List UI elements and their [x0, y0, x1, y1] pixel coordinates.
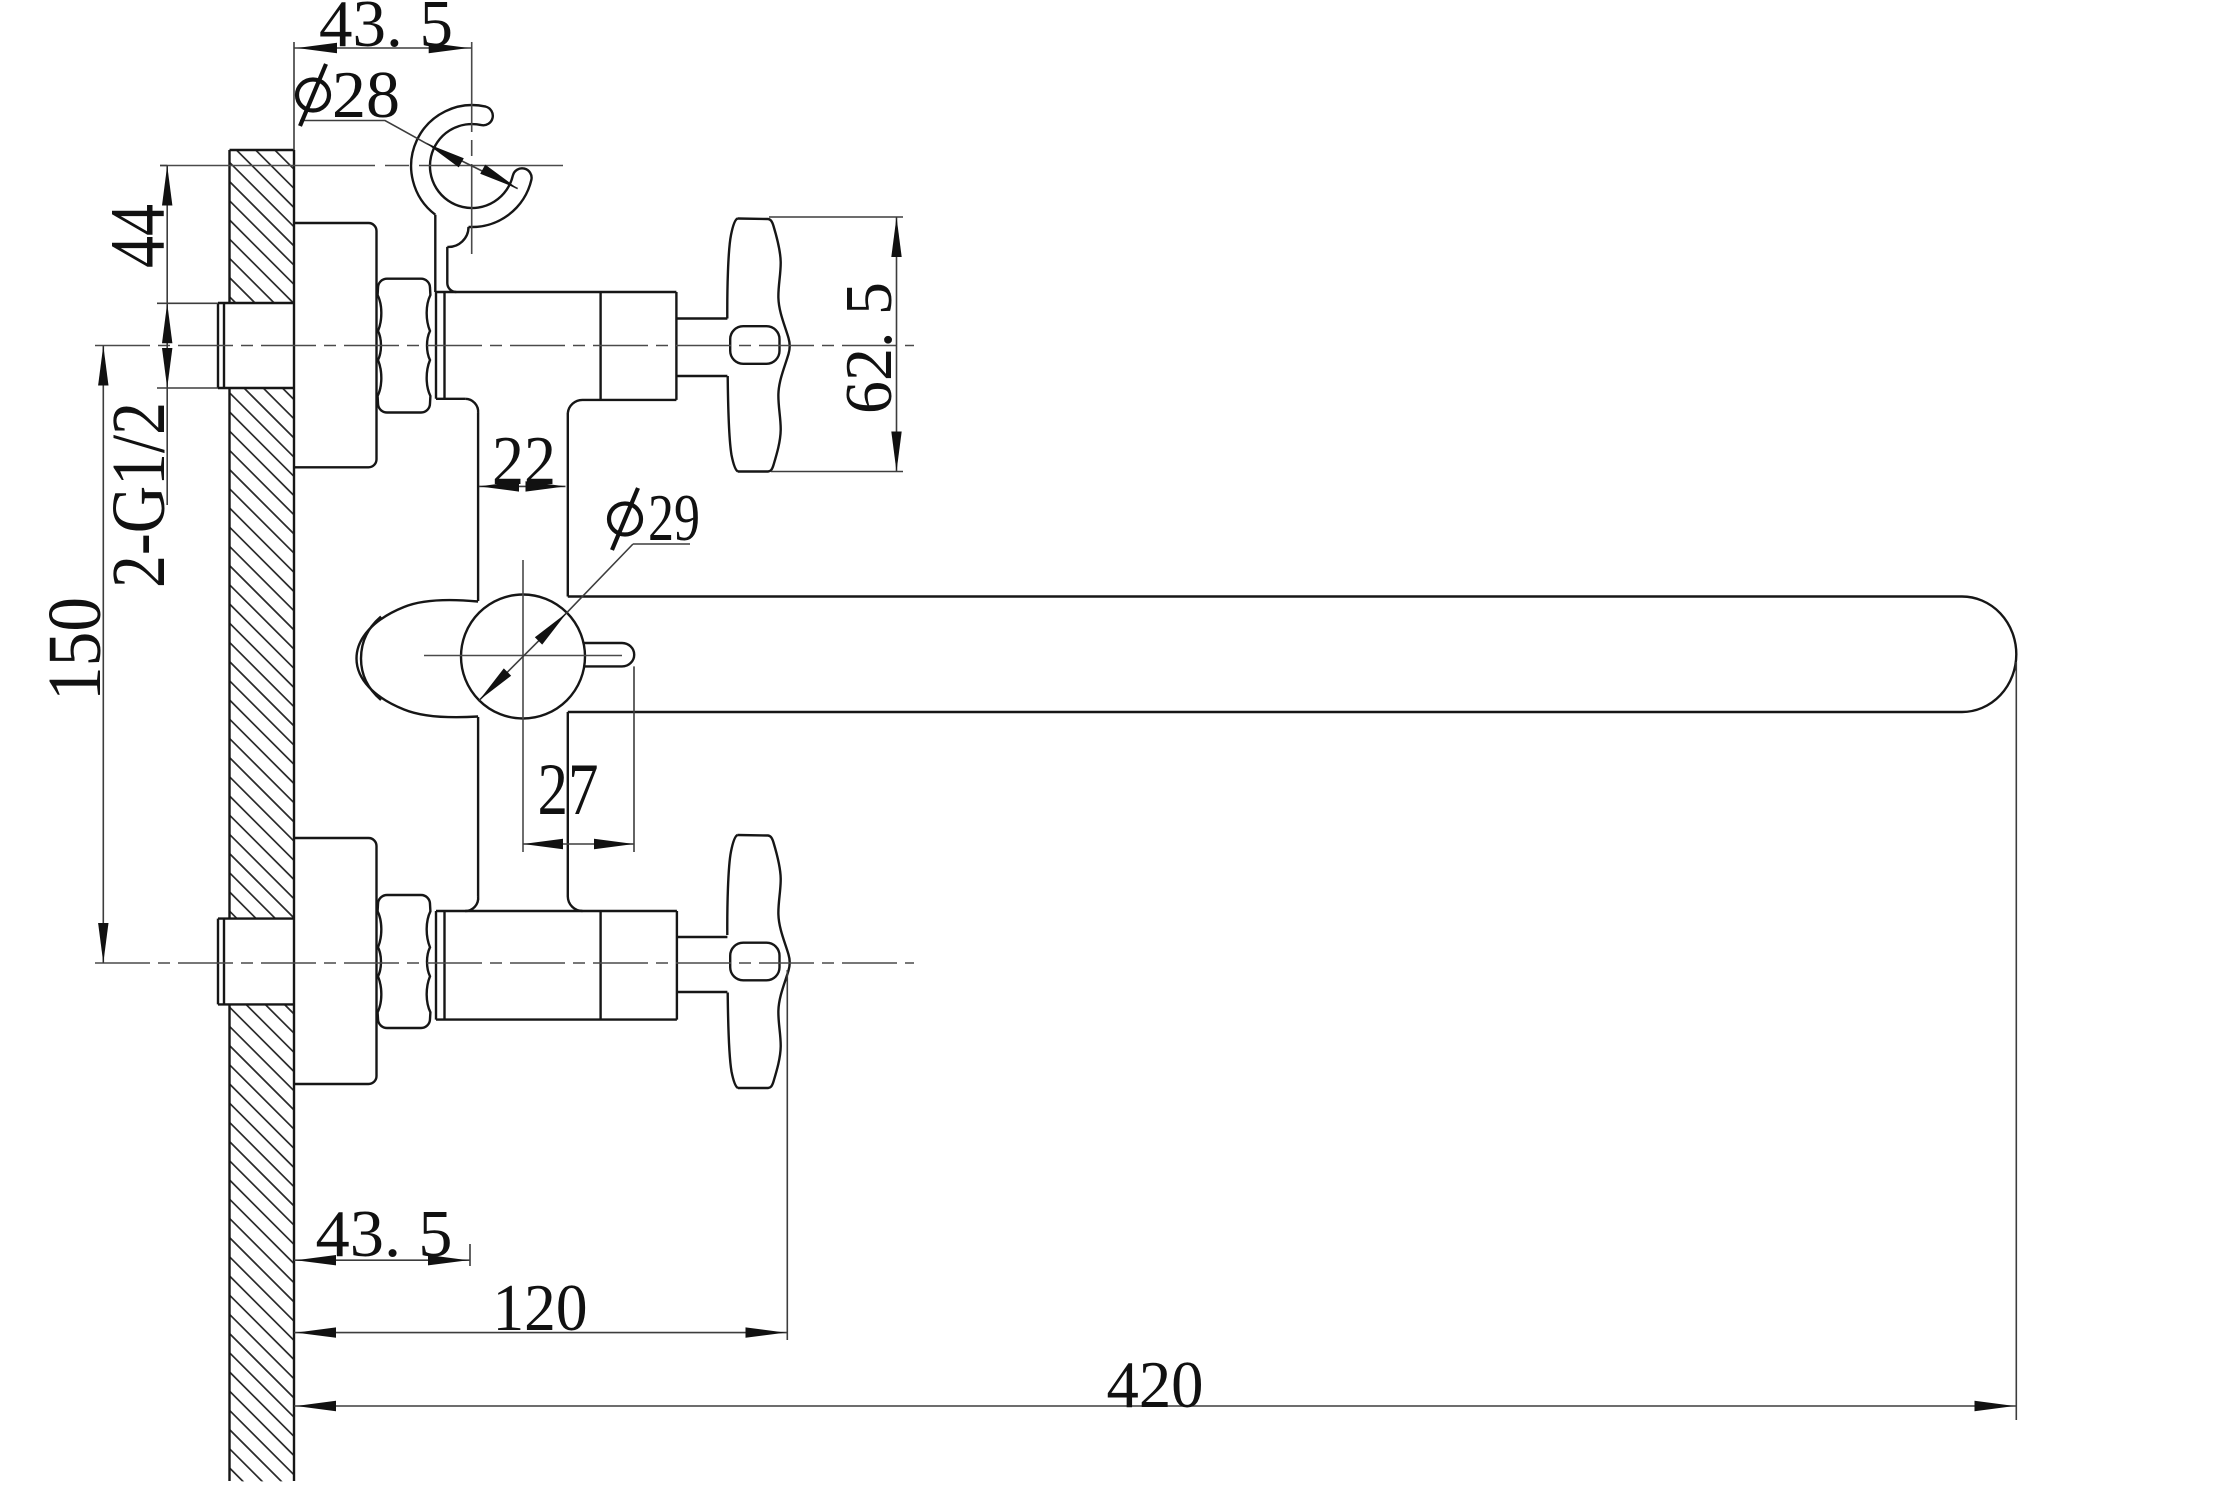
circle horizontal centerline — [424, 655, 622, 657]
bottom handle knob — [730, 943, 779, 981]
44 / 2-G1/2 dim line — [166, 166, 168, 506]
hook horizontal centerline — [160, 165, 563, 167]
circle vertical centerline / 27 ext — [522, 560, 524, 852]
fillet right to trunk — [568, 400, 583, 413]
fillet right from trunk — [568, 897, 583, 912]
spout — [568, 597, 2017, 713]
phi28 underline and leader — [300, 121, 518, 189]
diverter knob — [357, 600, 479, 717]
bottom barrel — [436, 911, 677, 1020]
svg-text:150: 150 — [33, 597, 117, 701]
top handle knob — [730, 326, 779, 364]
svg-text:27: 27 — [538, 749, 599, 831]
bottom valve stem — [677, 937, 728, 992]
120 dim — [294, 970, 787, 1340]
svg-text:22: 22 — [492, 423, 556, 500]
svg-text:2-G1/2: 2-G1/2 — [97, 402, 181, 588]
wall face — [293, 150, 295, 1481]
svg-text:28: 28 — [332, 58, 400, 132]
top flange — [294, 223, 377, 467]
43.5 bottom dim — [294, 1244, 470, 1266]
wall left edge — [230, 150, 295, 1481]
phi symbol of 29 — [609, 504, 641, 535]
bottom flange — [294, 838, 377, 1084]
bottom valve group — [218, 838, 727, 1084]
mixer ball circle — [461, 595, 585, 719]
top valve group — [218, 223, 727, 467]
svg-text:120: 120 — [493, 1271, 588, 1345]
top valve centerline — [95, 345, 914, 347]
phi29 underline and leader — [479, 544, 690, 700]
stub ext lines — [157, 166, 218, 389]
wall hatching — [230, 86, 295, 1500]
bottom handle — [727, 835, 789, 1088]
bottom eccentric stub — [218, 919, 294, 1005]
top valve stem — [676, 319, 727, 377]
top barrel — [436, 292, 676, 400]
top handle — [727, 219, 789, 472]
svg-text:62. 5: 62. 5 — [832, 282, 906, 414]
hook stem — [435, 215, 447, 292]
dimension texts — [33, 0, 1204, 1422]
trunk (22mm pipe) — [478, 413, 568, 897]
arrowheads — [98, 43, 2014, 1411]
svg-text:420: 420 — [1107, 1348, 1204, 1422]
fillet left to trunk — [465, 399, 478, 413]
svg-text:43. 5: 43. 5 — [319, 0, 453, 61]
hook ring — [411, 105, 531, 292]
centerlines — [95, 42, 914, 963]
top nut — [378, 279, 431, 413]
svg-text:44: 44 — [94, 204, 181, 268]
svg-text:29: 29 — [648, 481, 700, 555]
dimensions — [103, 42, 2016, 1420]
svg-text:43. 5: 43. 5 — [316, 1197, 453, 1271]
hook vertical line / 43.5 ext — [471, 42, 473, 255]
150 dim line — [102, 346, 104, 964]
knob inner chamfer arc — [361, 617, 381, 701]
bottom valve centerline — [95, 962, 914, 964]
43.5 top dim — [294, 42, 472, 150]
top eccentric stub — [218, 303, 294, 388]
bottom nut — [378, 895, 431, 1028]
420 dim — [294, 662, 2016, 1420]
slot tab at spout root — [584, 643, 635, 666]
27 dim — [523, 666, 634, 852]
wall top edge — [230, 149, 295, 151]
22 dim line — [479, 485, 566, 487]
fillet left from trunk — [465, 897, 478, 912]
phi symbol of 28 — [297, 64, 641, 550]
62.5 dim — [769, 217, 903, 472]
